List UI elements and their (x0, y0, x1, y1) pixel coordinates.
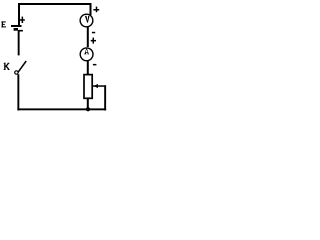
wire right vertical upper (rail to voltmeter) (90, 3, 92, 15)
wire right vertical lower (wiper to bottom rail) (104, 85, 106, 110)
junction dot (86, 107, 90, 111)
wire left vertical lower (switch to bottom rail) (17, 74, 19, 110)
wire bottom rail (17, 108, 106, 110)
battery plus label (19, 17, 24, 23)
wire left vertical upper (rail to battery) (18, 3, 20, 25)
ammeter plus label (91, 38, 96, 44)
switch K blade (18, 61, 26, 73)
rheostat R body (84, 75, 92, 99)
voltmeter letter V (85, 16, 90, 23)
ammeter letter A (84, 49, 89, 55)
rheostat wiper arrowhead (94, 84, 98, 88)
rheostat wiper arrow line (93, 85, 106, 87)
ammeter A circle (80, 48, 93, 61)
ammeter minus label (93, 64, 97, 66)
wire voltmeter to ammeter (87, 26, 89, 47)
wire top rail (18, 3, 92, 5)
wire rheostat to bottom rail (87, 98, 89, 110)
switch K contact circle (15, 71, 18, 74)
wire left vertical middle (battery to switch) (18, 30, 20, 55)
label K (4, 63, 10, 70)
battery E negative plate (14, 28, 18, 31)
battery E positive plate (11, 25, 22, 27)
battery minus label (19, 30, 23, 32)
wire ammeter to rheostat (87, 60, 89, 75)
label E (1, 21, 6, 27)
plus label top right (93, 7, 99, 13)
voltmeter V circle (80, 14, 93, 27)
voltmeter minus label (92, 32, 95, 34)
